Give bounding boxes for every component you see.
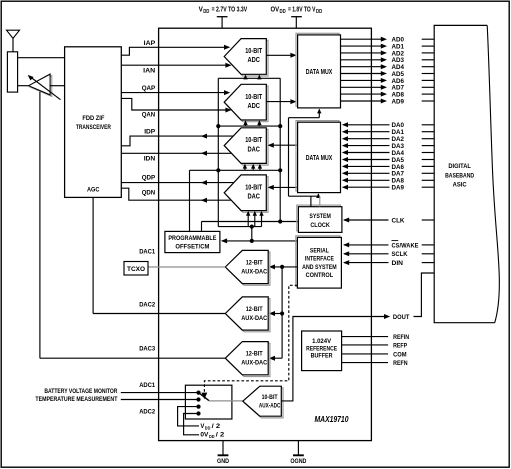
svg-text:QDN: QDN [142, 190, 156, 197]
label AD7 [392, 85, 405, 92]
svg-text:DAC: DAC [247, 146, 260, 153]
label DA8 [392, 178, 405, 185]
wire AD1 output [341, 44, 435, 49]
label AD0 [392, 37, 405, 44]
wire DAC1 tap to offset block [189, 170, 191, 231]
wire DA0 input [342, 122, 434, 127]
svg-text:DOUT: DOUT [393, 314, 410, 321]
wire AD5 output [341, 71, 435, 76]
wire amp gain control from DAC3 [39, 92, 41, 358]
wire DA5 input [342, 157, 434, 162]
svg-text:DD: DD [209, 434, 215, 439]
system clock line [202, 219, 299, 231]
label AD4 [392, 64, 405, 71]
svg-text:FDD ZIF: FDD ZIF [82, 115, 104, 122]
wire serial control to offset block [221, 238, 298, 243]
wire CS/WAKE input [343, 242, 434, 247]
wire AD0 output [341, 37, 435, 42]
10-bit DAC U5 (I transmit) [224, 128, 268, 165]
label DA0 [392, 122, 405, 129]
svg-text:ADC: ADC [247, 103, 260, 110]
label DOUT [393, 314, 410, 321]
wire QAN [121, 98, 231, 112]
wire REFN [342, 362, 389, 364]
svg-text:TRANSCEIVER: TRANSCEIVER [76, 124, 111, 131]
label DA4 [392, 150, 405, 157]
svg-text:TEMPERATURE MEASUREMENT: TEMPERATURE MEASUREMENT [35, 396, 117, 403]
wire DAC1 to TCXO (gray) [148, 266, 225, 268]
svg-text:AGC: AGC [87, 187, 100, 194]
svg-text:BATTERY VOLTAGE MONITOR: BATTERY VOLTAGE MONITOR [44, 388, 117, 395]
label MAX19710 [315, 415, 349, 424]
svg-text:0V: 0V [200, 431, 209, 438]
FDD ZIF transceiver U2 [65, 47, 122, 198]
label temperature measurement [35, 396, 117, 403]
svg-text:DD: DD [203, 9, 210, 15]
label IAP [144, 40, 156, 47]
10-bit DAC U6 (Q transmit) [224, 175, 268, 212]
label ADC1 [139, 382, 155, 389]
wire DA1 input [342, 129, 434, 134]
wire aux-dac control bus [280, 267, 284, 358]
clock tap to DAC1 [190, 164, 283, 173]
svg-text:10-BIT: 10-BIT [245, 184, 263, 191]
label AD5 [392, 71, 405, 78]
svg-text:GND: GND [217, 458, 229, 465]
wire data mux to DAC1 input [268, 143, 298, 148]
svg-text:DA1: DA1 [392, 129, 405, 136]
wire data mux to DAC2 input [268, 185, 298, 190]
antenna [7, 30, 20, 52]
AGC label [87, 187, 100, 194]
svg-text:OFFSET/CM: OFFSET/CM [175, 244, 209, 251]
label DAC1 [139, 248, 155, 255]
svg-text:DATA MUX: DATA MUX [306, 155, 333, 162]
data mux (DAC side) [296, 121, 341, 193]
label ADC2 [139, 409, 155, 416]
svg-text:TCXO: TCXO [127, 266, 145, 273]
svg-text:REFERENCE: REFERENCE [306, 345, 338, 352]
VDD supply label [199, 6, 248, 28]
dashed mux-control wire [202, 285, 298, 399]
12-bit AUX-DAC1 [225, 250, 270, 285]
label AD9 [392, 98, 405, 105]
wire AD7 output [341, 85, 435, 90]
10-bit ADC U4 (Q receive) [224, 84, 268, 121]
svg-text:OV: OV [271, 6, 280, 13]
svg-text:/ 2: / 2 [212, 423, 221, 430]
clock tap to DAC2 [218, 211, 263, 227]
label IDP [144, 128, 155, 135]
svg-text:DIN: DIN [392, 260, 404, 267]
label DA3 [392, 143, 405, 150]
svg-text:= 2.7V TO 3.3V: = 2.7V TO 3.3V [212, 6, 248, 13]
svg-text:BUFFER: BUFFER [311, 353, 333, 360]
wire QDN from DAC2 [121, 188, 231, 203]
wire REFP [342, 344, 389, 346]
label AD2 [392, 50, 405, 57]
svg-text:AUX-DAC: AUX-DAC [241, 315, 267, 322]
svg-text:QAP: QAP [142, 85, 156, 92]
wire ADC1 output to data mux [266, 53, 296, 58]
label IDN [144, 155, 156, 162]
wire DA3 input [342, 143, 434, 148]
label CS/WAKE [392, 241, 420, 250]
wire aux-adc output to DOUT [281, 314, 390, 401]
svg-text:12-BIT: 12-BIT [246, 306, 264, 313]
svg-text:ASIC: ASIC [453, 182, 467, 189]
TCXO box [124, 262, 148, 276]
svg-text:IDP: IDP [144, 128, 155, 135]
svg-text:IAP: IAP [144, 40, 156, 47]
svg-text:DATA MUX: DATA MUX [306, 69, 333, 76]
MAX19710 chip boundary box [159, 28, 372, 440]
svg-text:AUX-DAC: AUX-DAC [241, 360, 267, 367]
wire bus to aux-dac3 [269, 356, 282, 361]
svg-text:IDN: IDN [144, 155, 156, 162]
wire SCLK input [343, 251, 434, 256]
PA variable-gain amplifier [28, 74, 61, 100]
duplexer filter [7, 52, 17, 92]
svg-text:QDP: QDP [142, 175, 156, 182]
svg-text:CS/WAKE: CS/WAKE [392, 242, 420, 249]
svg-text:AUX-DAC: AUX-DAC [241, 268, 267, 275]
wire bus to aux-dac2 [269, 311, 282, 316]
label REFN [393, 360, 408, 367]
wire DA8 input [342, 178, 434, 183]
clock tap to ADC2 [216, 120, 282, 128]
wire DA2 input [342, 136, 434, 141]
wire AD9 output [341, 99, 435, 104]
wire DA6 input [342, 164, 434, 169]
svg-text:AND SYSTEM: AND SYSTEM [302, 264, 337, 271]
wire ADC1 input [121, 392, 199, 394]
12-bit AUX-DAC2 [225, 297, 270, 332]
wire DOUT to baseband [414, 273, 435, 317]
svg-text:CLOCK: CLOCK [310, 222, 330, 229]
switch input node 1 [196, 391, 200, 395]
svg-text:DA9: DA9 [392, 185, 405, 192]
svg-text:DD: DD [316, 9, 323, 15]
system clock block [297, 205, 342, 232]
svg-text:QAN: QAN [142, 111, 156, 118]
wire DAC3 net [40, 357, 225, 359]
wire COM [342, 353, 389, 355]
wire IDN from DAC1 [121, 151, 234, 156]
svg-text:DD: DD [205, 426, 211, 431]
wire VDD/2 input [178, 407, 199, 426]
svg-text:1.024V: 1.024V [312, 338, 332, 345]
wire AD2 output [341, 50, 435, 55]
data mux (ADC side) [296, 33, 341, 108]
svg-text:DAC2: DAC2 [139, 301, 155, 308]
svg-text:CONTROL: CONTROL [306, 272, 334, 279]
label AD1 [392, 44, 405, 51]
svg-text:REFIN: REFIN [393, 334, 409, 341]
wire clock riser to data mux 1 [289, 109, 322, 197]
label AD6 [392, 78, 405, 85]
svg-text:= 1.8V TO V: = 1.8V TO V [288, 6, 316, 13]
svg-text:SCLK: SCLK [392, 251, 408, 258]
svg-text:IAN: IAN [143, 67, 155, 74]
switch input node 3 [196, 405, 200, 409]
switch input node 4 [196, 411, 200, 415]
wire CLK input [343, 218, 434, 223]
label DA6 [392, 164, 405, 171]
svg-text:MAX19710: MAX19710 [315, 415, 349, 424]
svg-text:PROGRAMMABLE: PROGRAMMABLE [168, 235, 216, 242]
svg-text:10-BIT: 10-BIT [245, 48, 263, 55]
wire QDP from DAC2 [121, 180, 233, 185]
label OVDD/2 [200, 431, 224, 439]
label DA2 [392, 136, 405, 143]
svg-text:12-BIT: 12-BIT [246, 259, 264, 266]
svg-text:10-BIT: 10-BIT [262, 394, 278, 401]
wire OVDD/2 input [184, 414, 199, 435]
label SCLK [392, 251, 408, 258]
wire clock riser to data mux 2 [289, 193, 321, 207]
ground OGND [290, 441, 306, 465]
wire QAP [121, 90, 230, 95]
switch wiper [199, 393, 209, 401]
wire DIN input [343, 260, 434, 265]
wire ADC2 output to data mux [266, 99, 296, 104]
wire duplexer to transceiver [18, 57, 65, 59]
svg-text:COM: COM [393, 351, 407, 358]
svg-text:REFP: REFP [393, 342, 408, 349]
svg-text:SERIAL: SERIAL [310, 247, 329, 254]
label VDD/2 [200, 423, 220, 431]
label IAN [143, 67, 155, 74]
wire AGC to DAC2 net [92, 197, 94, 313]
label DAC2 [139, 301, 155, 308]
svg-text:DAC3: DAC3 [139, 346, 155, 353]
wire AD8 output [341, 92, 435, 97]
10-bit ADC U3 (I receive) [224, 39, 268, 76]
label QAN [142, 111, 156, 118]
wire DAC2 net [93, 313, 225, 315]
programmable offset/CM block [165, 231, 220, 252]
svg-text:10-BIT: 10-BIT [245, 94, 263, 101]
wire amp output to duplexer [18, 85, 30, 87]
clock bus vertical v1 [217, 78, 219, 226]
svg-text:12-BIT: 12-BIT [246, 351, 264, 358]
ground GND [217, 441, 229, 465]
wire IAP [121, 45, 230, 55]
wire transceiver to amp [50, 85, 65, 87]
serial interface and system control block [296, 236, 342, 288]
wire IDP from DAC1 [121, 134, 233, 146]
clock tap to ADC1 [218, 75, 280, 80]
label REFP [393, 342, 408, 349]
label COM [393, 351, 407, 358]
svg-text:DD: DD [280, 9, 287, 15]
label AD3 [392, 57, 405, 64]
12-bit AUX-DAC3 [225, 342, 270, 377]
digital baseband ASIC box [434, 25, 499, 322]
wire switch common to aux-adc (gray) [209, 400, 243, 402]
label QDN [142, 190, 156, 197]
wire offset block riser [250, 225, 254, 243]
svg-text:AUX-ADC: AUX-ADC [259, 403, 281, 410]
label REFIN [393, 334, 409, 341]
wire REFIN [342, 336, 389, 338]
wire IAN [121, 63, 231, 68]
svg-text:OGND: OGND [290, 458, 306, 465]
label DA7 [392, 171, 405, 178]
label DIN [392, 260, 404, 267]
label CLK [392, 217, 405, 224]
svg-text:SYSTEM: SYSTEM [309, 213, 331, 220]
svg-text:ADC1: ADC1 [139, 382, 155, 389]
svg-text:/ 2: / 2 [216, 431, 225, 438]
svg-text:DIGITAL: DIGITAL [448, 163, 471, 170]
svg-text:10-BIT: 10-BIT [245, 137, 263, 144]
wire AD4 output [341, 64, 435, 69]
svg-text:DA7: DA7 [392, 171, 405, 178]
label QAP [142, 85, 156, 92]
svg-text:BASEBAND: BASEBAND [445, 172, 474, 179]
wire DA9 input [342, 185, 434, 190]
wire DA7 input [342, 171, 434, 176]
OVDD supply label [271, 6, 323, 28]
wire DA4 input [342, 150, 434, 155]
svg-text:ADC: ADC [247, 57, 260, 64]
label QDP [142, 175, 156, 182]
1.024V reference buffer block [302, 331, 342, 371]
svg-text:DAC1: DAC1 [139, 248, 155, 255]
label DAC3 [139, 346, 155, 353]
svg-text:CLK: CLK [392, 217, 405, 224]
switch input node 2 [196, 397, 200, 401]
aux-adc input switch box [185, 385, 232, 419]
wire AD3 output [341, 57, 435, 62]
label battery voltage monitor [44, 388, 117, 395]
svg-text:ADC2: ADC2 [139, 409, 155, 416]
label DA5 [392, 157, 405, 164]
svg-text:DA4: DA4 [392, 150, 405, 157]
svg-text:DAC: DAC [247, 194, 260, 201]
wire ADC2 input [121, 399, 199, 401]
label DA9 [392, 185, 405, 192]
wire serial to aux-dac1 [269, 264, 298, 269]
clock bus vertical v2 [279, 78, 281, 221]
svg-text:INTERFACE: INTERFACE [305, 256, 334, 263]
label AD8 [392, 92, 405, 99]
wire AD6 output [341, 78, 435, 83]
svg-text:REFN: REFN [393, 360, 408, 367]
label DA1 [392, 129, 405, 136]
svg-text:AD9: AD9 [392, 98, 405, 105]
10-bit AUX-ADC [243, 386, 283, 418]
